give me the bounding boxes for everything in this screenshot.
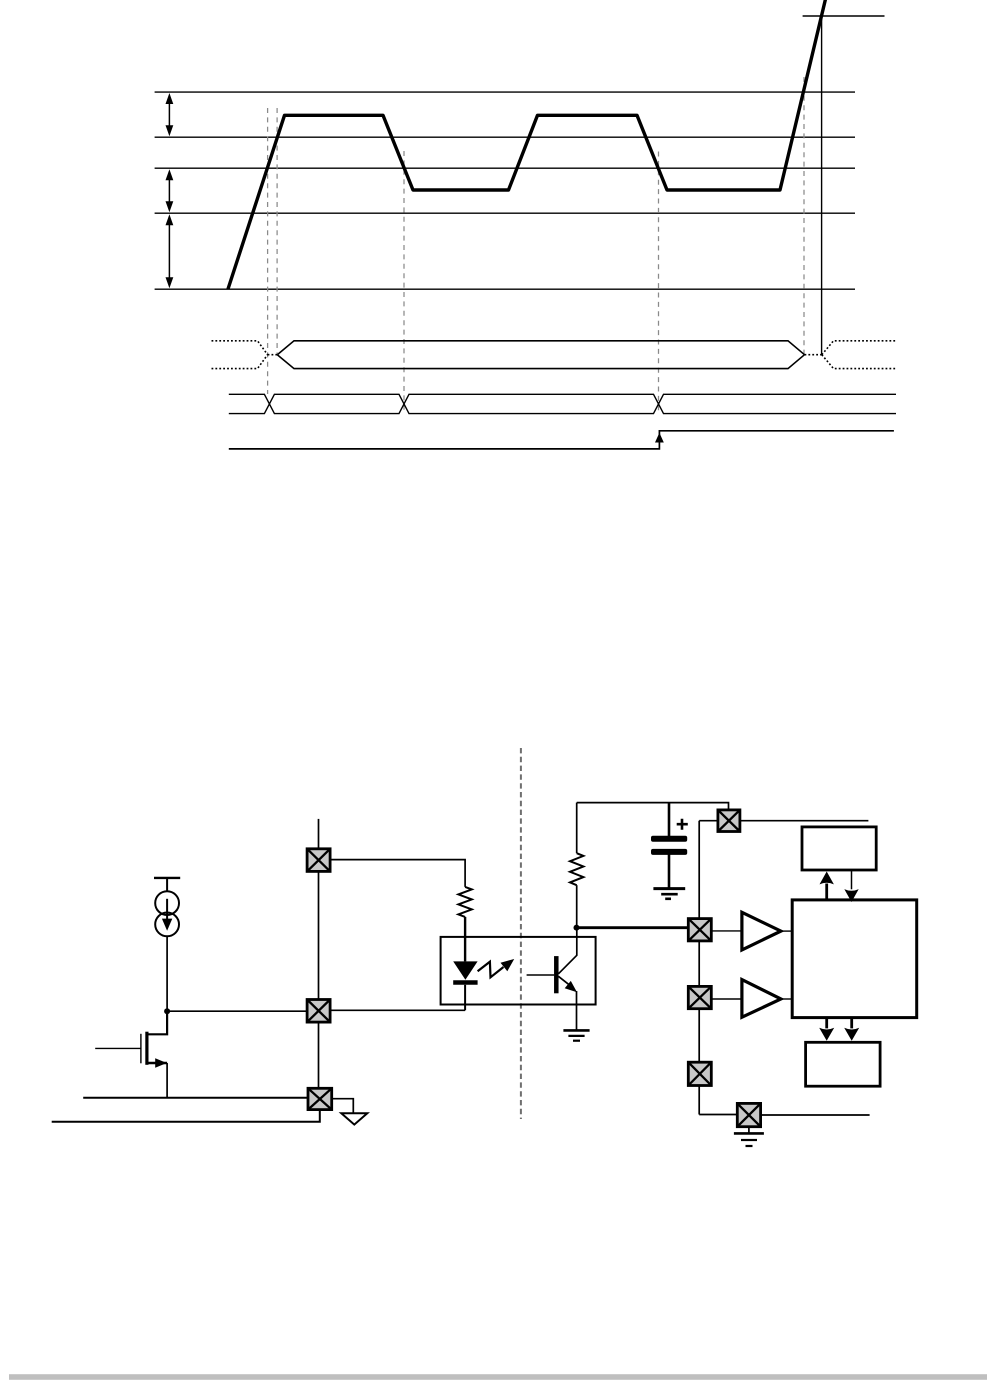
TIMING DIAGRAM: [155, 92, 855, 289]
earth ground at C1: [653, 889, 685, 899]
wire pin P1 to pin P2: [318, 871, 320, 999]
bus DATA right dotted (invalid): [805, 341, 898, 369]
phototransistor Q2 collector: [558, 928, 576, 974]
pin box P8: [737, 1103, 760, 1126]
capacitor C1 bottom wire: [668, 854, 671, 889]
bus DATA left dotted (invalid): [212, 341, 278, 369]
current source I1 stem: [166, 878, 168, 892]
pin box P3: [308, 1088, 332, 1109]
wire node A to pin box P2: [167, 1010, 307, 1012]
isolation barrier (dashed): [520, 748, 522, 1119]
pin box P6: [688, 986, 711, 1008]
phototransistor Q2 base bar: [554, 956, 559, 993]
wire pin P3 to signal ground: [332, 1099, 354, 1114]
transistor Q1 gate lead: [95, 1047, 141, 1049]
pin box P1: [307, 849, 330, 872]
right column vertical wire: [698, 821, 700, 1115]
capacitor C1 plus sign: [677, 819, 688, 830]
capacitor C1 top wire: [668, 803, 671, 837]
top register block: [802, 827, 876, 870]
earth ground at Q2 emitter: [563, 1030, 589, 1040]
level line VOH: [155, 91, 855, 93]
wire pin P4 left to right column: [699, 820, 718, 822]
down arrow U4 to bottom block (right): [850, 1018, 853, 1029]
node A junction dot: [164, 1008, 170, 1014]
level line GND: [155, 288, 855, 290]
level line VOL: [155, 212, 855, 214]
wire node B to pin box P5: [577, 926, 689, 929]
resistor R2 top wire: [576, 803, 578, 854]
current source I1 circle 1: [155, 891, 179, 915]
wire to pin box P8: [699, 1114, 737, 1116]
write strobe rising edge arrow: [655, 433, 664, 443]
optocoupler U1 package: [441, 937, 596, 1005]
bottom rail 1: [83, 1097, 308, 1099]
wire buffer U3 to block: [781, 998, 792, 1000]
capacitor C1 plate 2: [651, 849, 687, 855]
wire current source to node A: [166, 936, 168, 1011]
phototransistor Q2 emitter: [558, 976, 570, 985]
pin box P5: [688, 919, 711, 941]
wire pin P1 to resistor R1: [330, 860, 465, 887]
pin box P4: [718, 810, 740, 832]
LED D1 cathode wire: [464, 985, 466, 1011]
bus DATA valid region: [277, 341, 804, 369]
transistor Q1 channel bar: [145, 1032, 148, 1065]
transistor Q1 drain wire: [147, 1011, 167, 1034]
light emission arrow: [478, 962, 504, 978]
down arrow U4 to bottom block (left): [825, 1018, 828, 1029]
level span arrow 3: [168, 219, 170, 283]
top supply rail: [577, 803, 729, 810]
wire R1 to LED anode: [464, 917, 466, 962]
resistor R1: [458, 887, 471, 917]
LED D1 cathode bar: [453, 980, 477, 985]
dashed timing marker t2: [276, 108, 278, 354]
transistor Q1 gate bar: [140, 1034, 142, 1064]
dashed timing marker t3: [403, 151, 405, 413]
earth ground at P8: [734, 1133, 764, 1146]
down arrow top block to U4: [851, 870, 853, 889]
phototransistor Q2 emitter wire: [576, 991, 578, 1030]
buffer U3: [742, 980, 781, 1018]
phototransistor Q2 base lead: [527, 974, 555, 976]
current source I1 circle 2: [155, 913, 179, 937]
current source I1 arrow: [166, 899, 168, 922]
bus ADDRESS line B: [229, 394, 896, 413]
main logic block U4: [792, 900, 917, 1018]
pin box P7: [688, 1062, 711, 1085]
signal ground triangle: [341, 1113, 367, 1124]
dashed timing marker t5: [803, 77, 805, 354]
vertical marker line: [821, 16, 823, 355]
top marker horizontal line: [803, 15, 885, 17]
wire pin P8 to ground: [748, 1127, 750, 1134]
up arrow U4 to top block: [825, 884, 828, 901]
dashed timing marker t1: [267, 108, 269, 394]
wire pin P5 to buffer U2: [711, 930, 742, 932]
LED D1 triangle: [453, 961, 477, 979]
wire buffer U2 to block: [781, 930, 792, 932]
buffer U2: [742, 912, 781, 950]
capacitor C1 plate 1: [651, 836, 687, 842]
wire pin P6 to buffer U3: [711, 998, 742, 1000]
level span arrow 1: [168, 98, 170, 131]
footer rule bar: [9, 1374, 987, 1380]
wire pin P4 right: [740, 820, 869, 822]
current source I1 supply bar: [154, 877, 180, 879]
transistor Q1 source lead: [147, 1062, 167, 1064]
transistor Q1 source arrow: [155, 1058, 167, 1067]
bottom register block: [806, 1042, 881, 1086]
bottom rail 2: [52, 1110, 320, 1121]
wire pin P2 to LED cathode: [330, 1009, 465, 1011]
bus ADDRESS line A: [229, 394, 896, 413]
level span arrow 2: [168, 174, 170, 207]
node B junction dot: [574, 925, 580, 931]
wire Q1 source to rail: [166, 1063, 168, 1098]
clock waveform: [228, 0, 826, 289]
level line VIL: [155, 167, 855, 169]
wire pin P8 right: [761, 1114, 870, 1116]
write strobe signal: [229, 431, 894, 449]
dashed timing marker t4: [658, 152, 660, 414]
pin box P2: [307, 1000, 330, 1023]
stub above pin box P1: [318, 819, 320, 849]
level line VIH: [155, 136, 855, 138]
wire pin P2 to pin P3: [318, 1022, 320, 1088]
resistor R2 bottom wire: [576, 885, 578, 927]
resistor R2: [570, 853, 583, 885]
